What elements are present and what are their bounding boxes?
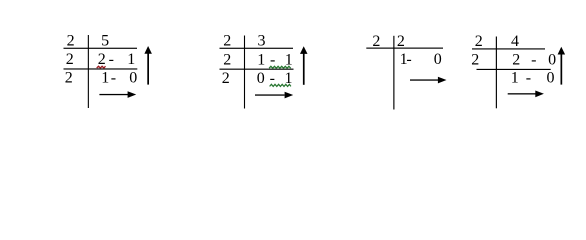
svg-text:-: - <box>270 70 275 87</box>
svg-text:-: - <box>109 51 114 68</box>
svg-text:5: 5 <box>101 33 109 50</box>
svg-text:0: 0 <box>257 70 265 87</box>
svg-text:1: 1 <box>511 70 519 87</box>
svg-text:2: 2 <box>223 33 231 50</box>
svg-text:4: 4 <box>511 33 519 50</box>
svg-text:2: 2 <box>397 33 405 50</box>
svg-text:0: 0 <box>434 51 442 68</box>
svg-text:1: 1 <box>127 51 135 68</box>
svg-text:3: 3 <box>258 33 266 50</box>
svg-text:0: 0 <box>129 70 137 87</box>
svg-text:1: 1 <box>257 51 265 68</box>
svg-text:2: 2 <box>66 51 74 68</box>
svg-text:0: 0 <box>547 70 555 87</box>
svg-text:-: - <box>111 70 116 87</box>
svg-text:2: 2 <box>512 51 520 68</box>
svg-text:2: 2 <box>222 70 230 87</box>
svg-text:2: 2 <box>67 33 75 50</box>
svg-text:0: 0 <box>548 51 556 68</box>
svg-text:2: 2 <box>475 33 483 50</box>
svg-text:1: 1 <box>101 70 109 87</box>
svg-text:-: - <box>526 70 531 87</box>
svg-text:-: - <box>531 51 536 68</box>
svg-text:-: - <box>406 51 411 68</box>
svg-text:2: 2 <box>372 33 380 50</box>
svg-text:2: 2 <box>471 51 479 68</box>
svg-text:2: 2 <box>98 51 106 68</box>
svg-text:2: 2 <box>65 70 73 87</box>
svg-text:2: 2 <box>223 51 231 68</box>
